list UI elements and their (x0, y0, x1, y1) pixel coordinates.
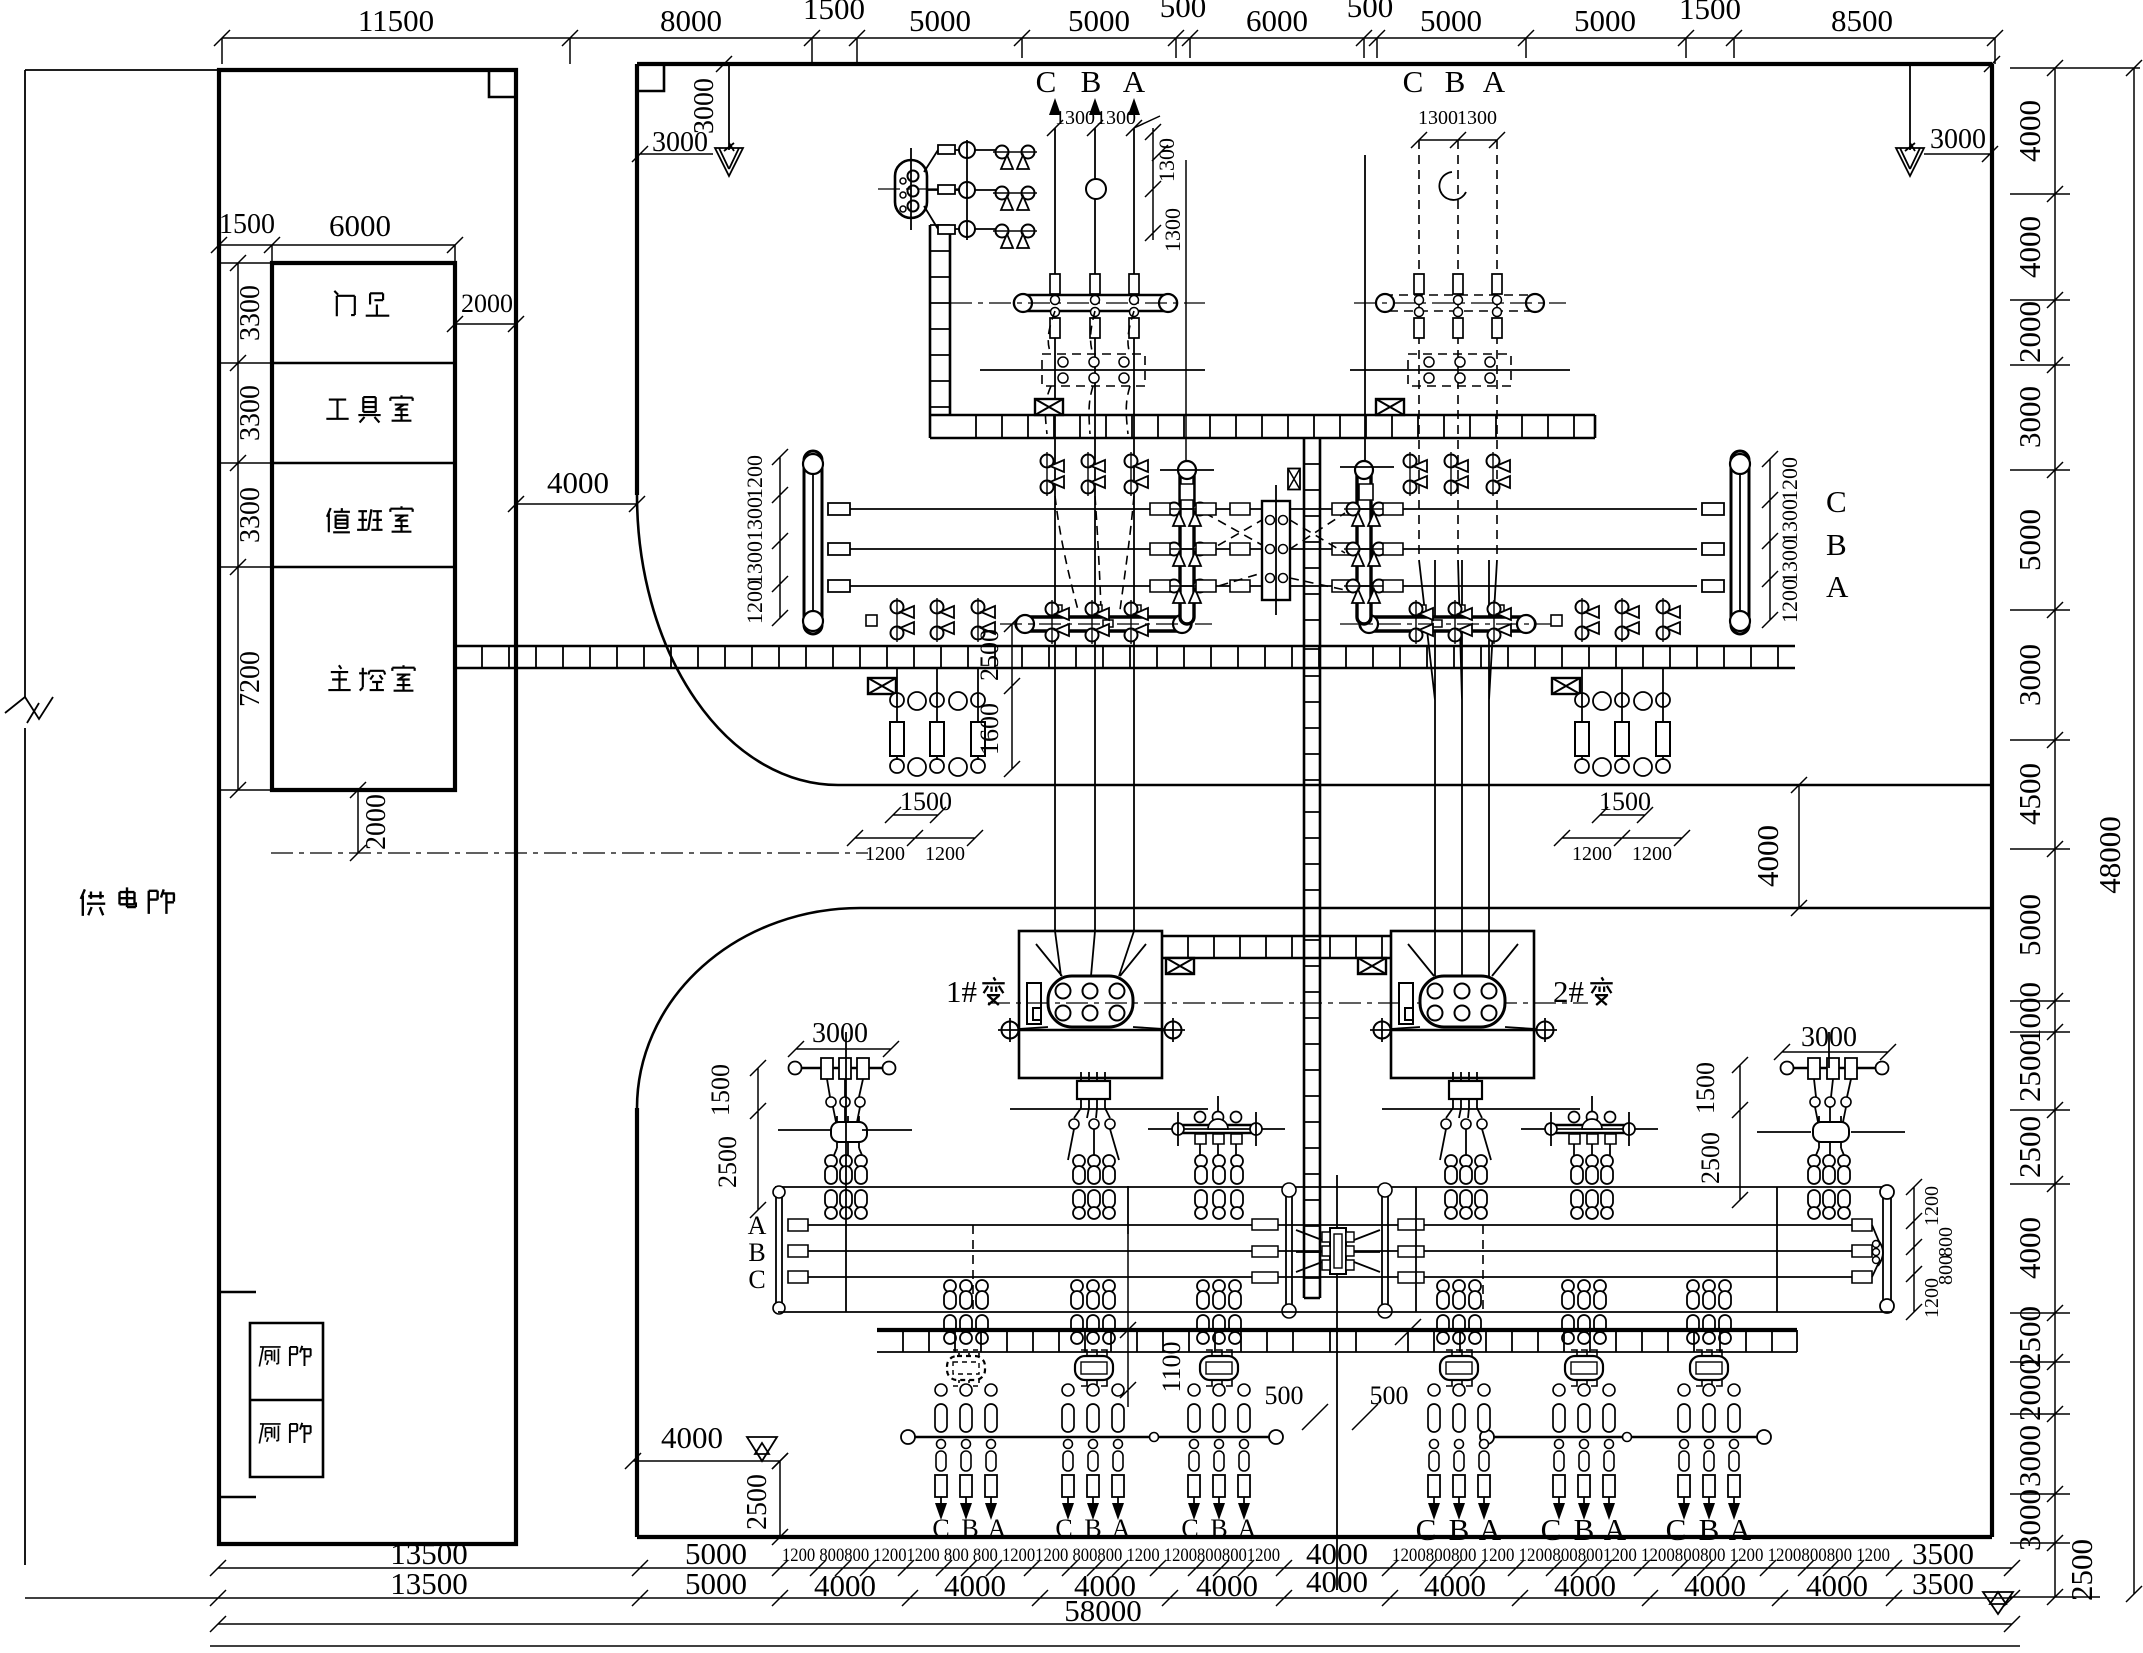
label 供电所 (81, 889, 105, 916)
svg-text:2000: 2000 (2012, 1359, 2047, 1421)
tube bus phase insulators top (1050, 274, 1139, 294)
svg-text:C: C (932, 1514, 949, 1543)
svg-text:1300: 1300 (1777, 499, 1802, 543)
svg-text:2500: 2500 (2012, 1306, 2047, 1368)
feeder drops G5 (1553, 1440, 1565, 1521)
top boundary left segment (25, 69, 219, 71)
svg-text:A: A (1729, 1512, 1752, 1547)
feeder capsule rows above bus (935, 1404, 947, 1432)
3000 vertical dim top-right (1909, 64, 1911, 150)
svg-text:A: A (1479, 1512, 1502, 1547)
benchmark triangle top-left (715, 143, 743, 176)
svg-text:4000: 4000 (661, 1420, 723, 1455)
svg-text:2500: 2500 (1696, 1132, 1725, 1184)
left bay phase wire C (1054, 128, 1056, 931)
feeder drops G2 (1062, 1440, 1074, 1521)
svg-text:1500: 1500 (1679, 0, 1741, 26)
cable trench horizontal band (455, 646, 1795, 668)
transformer bridge band top (1162, 935, 1391, 938)
feeder drops G1 (935, 1440, 947, 1521)
L-bus pads (1048, 605, 1141, 627)
feeder circle triples G4 (1428, 1384, 1490, 1396)
svg-text:48000: 48000 (2092, 816, 2127, 894)
svg-text:4000: 4000 (1196, 1568, 1258, 1603)
svg-text:1200: 1200 (742, 580, 767, 624)
left bay phase wire A (1133, 128, 1135, 931)
svg-text:2000: 2000 (461, 289, 513, 318)
lower insulator clusters G2 (1071, 1280, 1083, 1344)
svg-text:B: B (748, 1238, 765, 1267)
left L-bus vertical tube (1180, 463, 1194, 624)
top dimension chain line (222, 37, 1995, 39)
svg-text:1300: 1300 (1457, 107, 1497, 129)
svg-text:A: A (1483, 64, 1506, 99)
svg-text:B: B (1449, 1512, 1470, 1547)
svg-text:4000: 4000 (1806, 1568, 1868, 1603)
svg-text:B: B (1699, 1512, 1720, 1547)
svg-text:1500: 1500 (1599, 787, 1651, 816)
right chain 1 labels (2012, 100, 2099, 1601)
T1 LV circles (1069, 1119, 1079, 1129)
transformer 1 tank (1048, 976, 1133, 1027)
T1 LV drops (1068, 1129, 1119, 1160)
building corner notch (489, 72, 514, 97)
svg-text:C: C (748, 1265, 765, 1294)
lower disconnect line (778, 1311, 1892, 1313)
10kV right end bracket (1878, 1240, 1883, 1266)
rooms width dim line (219, 245, 455, 263)
lower insulator clusters G4 (1437, 1280, 1449, 1344)
svg-text:4000: 4000 (2012, 100, 2047, 162)
right bay tube bus dashed (1376, 295, 1544, 311)
tube bus phase insulators bottom (1050, 318, 1139, 338)
left bay arrow ticks (1047, 120, 1168, 161)
svg-text:C: C (1826, 484, 1847, 519)
10kV switchgear band bottom (877, 1351, 1797, 1353)
T1 axis centerline (988, 1002, 1588, 1004)
dashed construction vertical (973, 1225, 1483, 1312)
crossed box below band left (868, 678, 896, 694)
lower insulator clusters G3 (1197, 1280, 1209, 1344)
svg-text:1300: 1300 (1160, 208, 1185, 252)
feeder circle triples G6 (1678, 1384, 1740, 1396)
svg-text:500: 500 (1347, 0, 1394, 24)
right L-bus vertical tube (1357, 463, 1371, 624)
dim 1200 1200 right (1554, 830, 1690, 846)
svg-text:1300: 1300 (742, 497, 767, 541)
svg-text:1200: 1200 (1777, 579, 1802, 623)
svg-text:C: C (1055, 1514, 1072, 1543)
svg-text:1300: 1300 (1055, 107, 1095, 129)
T2 LV horizontal line (1382, 1108, 1580, 1110)
svg-text:1500: 1500 (900, 787, 952, 816)
svg-text:1200: 1200 (865, 843, 905, 865)
left PT centerline (980, 369, 1205, 371)
upper L-wall vertical band (930, 225, 950, 438)
centre axis line (1336, 1175, 1338, 1590)
road corner arc lower (637, 908, 860, 1108)
central trench rungs (1304, 464, 1320, 1278)
bottom chain row2 ticks (210, 1590, 2020, 1606)
10kV section coupler box (1330, 1228, 1346, 1274)
svg-text:2000: 2000 (361, 794, 392, 850)
svg-text:A: A (1238, 1514, 1257, 1543)
svg-text:1500: 1500 (706, 1064, 735, 1116)
wall stub upper (219, 1291, 256, 1294)
svg-text:1300: 1300 (1777, 539, 1802, 583)
bridge crossed box left (1166, 958, 1194, 974)
feeder drops G6 (1678, 1440, 1690, 1521)
svg-text:3300: 3300 (235, 385, 266, 441)
left arrester dashes down (832, 1148, 864, 1160)
T1 brace lines (1018, 944, 1164, 1029)
3000 horizontal dim line top-right (1924, 146, 1998, 162)
right riser tube (1883, 1190, 1891, 1308)
right L-bus centerline (1340, 623, 1556, 625)
right arrester assembly (1813, 1122, 1849, 1142)
T2 LV circles (1441, 1119, 1451, 1129)
T2 bushings (1428, 984, 1497, 1021)
dim 2500 vertical (1004, 616, 1020, 777)
top chain extension stubs (222, 38, 1995, 64)
coupler dashed crossover left (1205, 513, 1262, 590)
svg-text:A: A (1604, 1512, 1627, 1547)
svg-text:5000: 5000 (2012, 509, 2047, 571)
svg-text:5000: 5000 (909, 3, 971, 38)
svg-text:3000: 3000 (2012, 644, 2047, 706)
feeder takeoff assembly G3 (1148, 1096, 1285, 1160)
right portal top bar (1782, 1067, 1888, 1070)
trench band rungs (482, 646, 1778, 668)
coupler pads right (1332, 503, 1352, 592)
svg-text:500: 500 (1265, 1381, 1304, 1410)
right chain 2 total line (2133, 68, 2135, 1594)
right L-bus pads (1412, 605, 1504, 627)
svg-text:3300: 3300 (235, 487, 266, 543)
svg-text:C: C (1036, 64, 1057, 99)
curl mark on B phase (1439, 172, 1466, 200)
svg-text:A: A (1123, 64, 1146, 99)
bridge crossed box right (1358, 958, 1386, 974)
incoming disconnectors row3 (993, 225, 1037, 249)
breaker unit F6 (1690, 1350, 1728, 1386)
crossed box on wall left bay (1035, 399, 1063, 415)
toilet labels 厕所 (259, 1347, 280, 1367)
oval centerline (878, 188, 965, 190)
right fuse group circles top (1575, 692, 1670, 710)
room label 门卫 (334, 291, 354, 316)
main bus right pads (1702, 503, 1724, 592)
breaker unit F1 dashed (947, 1350, 985, 1386)
right bus support capsule (1731, 451, 1749, 634)
svg-text:B: B (1826, 527, 1847, 562)
svg-text:58000: 58000 (1064, 1593, 1142, 1628)
svg-text:4000: 4000 (1424, 1568, 1486, 1603)
incoming oval PT (895, 160, 927, 218)
35kV insulators feeder mid-left (1195, 1155, 1207, 1219)
10kV bus wire A (795, 1224, 1862, 1226)
disconnectors on right L-bus (1410, 600, 1434, 644)
right bay phase wire C dashed (1418, 140, 1420, 560)
svg-text:3000: 3000 (2012, 1489, 2047, 1551)
svg-text:1500: 1500 (219, 209, 275, 240)
phase arrows up (1049, 98, 1140, 115)
svg-text:A: A (988, 1514, 1007, 1543)
coupler arrow pads left (1252, 1219, 1278, 1283)
left capsule dim chain (772, 449, 788, 626)
35kV insulators left portal (825, 1155, 837, 1219)
room block outline (272, 263, 455, 790)
right bay phase wires solid lower (1419, 560, 1497, 976)
right tube circles (1415, 296, 1502, 317)
svg-text:3000: 3000 (689, 78, 720, 134)
right chain 2 ticks (2126, 60, 2142, 1602)
property line break symbol (5, 697, 53, 723)
35kV insulators right portal (1808, 1155, 1820, 1219)
right PT centerline (1350, 369, 1570, 371)
3000 vertical dim top-left (728, 64, 730, 150)
transformer 1 bay box (1019, 931, 1162, 1078)
svg-text:1#: 1# (946, 974, 977, 1009)
incoming pad stack column (938, 145, 955, 234)
svg-text:4000: 4000 (547, 465, 609, 500)
left bay disconnectors below wall (1041, 452, 1065, 496)
left PT circles (1058, 357, 1129, 383)
left bay dashed drops to wall (1045, 311, 1134, 434)
main bus wire 2 (848, 548, 1697, 550)
svg-text:4000: 4000 (1554, 1568, 1616, 1603)
bottom chain row3 total line (218, 1623, 2012, 1625)
T2 rail (1373, 1029, 1554, 1032)
svg-text:6000: 6000 (1246, 3, 1308, 38)
yard left wall lower segment (635, 1108, 639, 1537)
svg-text:B: B (1084, 1514, 1101, 1543)
upper wall horizontal band (930, 415, 1595, 438)
bottom chain row1 ticks (210, 1560, 2020, 1576)
svg-text:800: 800 (1935, 1227, 1957, 1257)
svg-text:3000: 3000 (812, 1018, 868, 1049)
right capsule dim chain (1762, 451, 1778, 628)
yard bottom wall (637, 1535, 1992, 1539)
svg-text:1100: 1100 (1157, 1341, 1186, 1392)
10kV bus left pads (788, 1219, 808, 1283)
top-right slash tick on wall (1984, 56, 2000, 72)
svg-text:8000: 8000 (660, 3, 722, 38)
bus pads right of right riser (1383, 503, 1403, 592)
T1 bushings (1056, 984, 1125, 1021)
breaker row pad (866, 615, 877, 626)
left bus support capsule (804, 451, 822, 634)
right tube centerline (1354, 302, 1566, 304)
svg-text:4500: 4500 (2012, 763, 2047, 825)
breaker unit F3 (1200, 1350, 1238, 1386)
svg-text:1500: 1500 (803, 0, 865, 26)
transformer 2 tank (1420, 976, 1505, 1027)
svg-text:8500: 8500 (1831, 3, 1893, 38)
feed diagonals from oval (924, 150, 1004, 229)
bottom-right benchmark triangle (1983, 1592, 2013, 1614)
left arrester assembly (831, 1122, 867, 1142)
left portal top bar (790, 1067, 894, 1070)
svg-text:1200: 1200 (742, 455, 767, 499)
right fuse group circles bottom (1575, 758, 1670, 776)
svg-text:1200: 1200 (1921, 1186, 1943, 1226)
svg-text:C: C (1403, 64, 1424, 99)
T2 brace lines (1390, 944, 1536, 1029)
riser tube pads (1180, 484, 1373, 500)
10kV bus right end pads (1852, 1219, 1872, 1283)
main bus wire 1 (848, 508, 1697, 510)
feeder circle triples G3 (1188, 1384, 1250, 1396)
left fuse group circles bottom (890, 758, 985, 776)
incoming disconnectors row1 (993, 146, 1037, 170)
left L-bus horizontal tube (1016, 617, 1191, 631)
left fuse group fuses (890, 722, 985, 756)
T1 LV fan lines (1074, 1108, 1110, 1118)
circle device on B phase (1086, 179, 1106, 199)
top chain tick marks (214, 30, 2003, 46)
road centerline from gate (271, 852, 868, 854)
road edge upper (838, 784, 1992, 787)
10kV right end V-wires (1872, 1225, 1880, 1277)
T1 LV horizontal line (1010, 1108, 1208, 1110)
disconnect wedges on right riser tube (1344, 503, 1388, 527)
svg-text:B: B (1574, 1512, 1595, 1547)
35kV line (778, 1186, 1887, 1188)
bus pads flanking left riser (1150, 503, 1216, 592)
svg-text:1200: 1200 (1921, 1278, 1943, 1318)
room label 主控室 (328, 665, 350, 690)
svg-text:2500: 2500 (713, 1136, 742, 1188)
svg-text:4000: 4000 (2012, 1217, 2047, 1279)
svg-text:A: A (748, 1211, 767, 1240)
site bench mark top-left: slash tick (716, 56, 732, 72)
yard top wall (637, 62, 1992, 66)
sheet bottom line (210, 1645, 2020, 1647)
left arrester centreline stubs (778, 1129, 912, 1131)
T2 LV terminal block (1449, 1081, 1482, 1099)
svg-text:5000: 5000 (2012, 894, 2047, 956)
lower insulator clusters G5 (1562, 1280, 1574, 1344)
svg-text:500: 500 (1160, 0, 1207, 24)
main bus left pads (828, 503, 850, 592)
coupler dashed crossover right (1290, 513, 1345, 590)
svg-text:1200 800800 12001200 800 800 1: 1200 800800 12001200 800 800 12001200 80… (782, 1546, 1280, 1566)
right coupler disconnect bar (1382, 1185, 1388, 1315)
yard left wall upper segment (635, 64, 639, 495)
breaker unit F2 (1075, 1350, 1113, 1386)
svg-text:4000: 4000 (1750, 825, 1785, 887)
svg-text:2500: 2500 (2012, 1040, 2047, 1102)
benchmark triangle top-right (1896, 143, 1924, 176)
coupler arrow pads right (1398, 1219, 1424, 1283)
bridge rungs (1188, 936, 1382, 958)
svg-text:B: B (1210, 1514, 1227, 1543)
road width dim 4000 (1791, 777, 1807, 916)
svg-text:2500: 2500 (2012, 1116, 2047, 1178)
svg-text:C: C (1541, 1512, 1562, 1547)
svg-text:3000: 3000 (2012, 386, 2047, 448)
left property line (24, 70, 26, 1565)
svg-text:3000: 3000 (1930, 124, 1986, 155)
10kV right end dim labels (1906, 1179, 1922, 1320)
upper L-wall vertical rungs (930, 225, 950, 407)
dim 1200 1200 left (847, 830, 983, 846)
svg-text:4000: 4000 (814, 1568, 876, 1603)
right chain 1 extension stubs (2010, 68, 2140, 1597)
breaker row right of trench (1576, 598, 1600, 642)
35kV insulators mid-right (1571, 1155, 1583, 1219)
T2 LV fan lines (1446, 1108, 1482, 1118)
svg-text:11500: 11500 (358, 3, 434, 38)
right fuse stems (1582, 668, 1663, 760)
band rungs (903, 1330, 1772, 1352)
right chain 1 ticks (2047, 60, 2063, 1605)
coupler side pins (1322, 1232, 1354, 1270)
svg-text:1300: 1300 (1096, 107, 1136, 129)
right bay phase wire B dashed (1457, 140, 1459, 560)
35kV insulators under T1 (1073, 1155, 1085, 1219)
wall stub lower (219, 1496, 256, 1499)
T1 LV terminal block (1077, 1081, 1110, 1099)
T1 rail (1001, 1029, 1182, 1032)
svg-text:3000: 3000 (2012, 1425, 2047, 1487)
riser top circle centrelines (1160, 467, 1394, 470)
dim 2000 below building (350, 782, 366, 861)
svg-text:3300: 3300 (235, 285, 266, 341)
feeder circle triples G5 (1553, 1384, 1615, 1396)
svg-text:1200: 1200 (925, 843, 965, 865)
central cable trench vertical band (1304, 438, 1320, 1298)
svg-text:1200800800 1200 12008008001200: 1200800800 1200 12008008001200 120080080… (1392, 1546, 1890, 1566)
feeder circle triples G2 (1062, 1384, 1124, 1396)
rooms height ticks (230, 255, 246, 798)
svg-text:1300: 1300 (742, 541, 767, 585)
left riser pole (776, 1186, 782, 1312)
transformer bridge band bottom (1162, 957, 1391, 960)
10kV switchgear band top (877, 1328, 1797, 1332)
feeder drops G3 (1188, 1440, 1200, 1521)
right bay phase wire A dashed (1496, 140, 1498, 560)
feeder takeoff assembly G5 (1521, 1096, 1658, 1160)
left portal drops (827, 1079, 863, 1097)
vertical dim 1300/1300 left bay (1134, 116, 1186, 460)
bottom row3 ticks (210, 1616, 2020, 1632)
svg-text:7200: 7200 (235, 651, 266, 707)
disconnect wedges on left riser tube (1165, 503, 1209, 527)
breaker unit F4 (1440, 1350, 1478, 1386)
svg-text:4000: 4000 (1684, 1568, 1746, 1603)
right L-bus horizontal tube (1360, 617, 1535, 631)
transformer 2 bay box (1391, 931, 1534, 1078)
feeder bus left (904, 1436, 1282, 1439)
main bus wire 3 (848, 585, 1697, 587)
construction verticals lower area (846, 1032, 1829, 1312)
band break slash (1395, 1319, 1421, 1345)
left fuse stems (897, 668, 978, 760)
svg-text:A: A (1112, 1514, 1131, 1543)
right arrester dashes down (1814, 1148, 1846, 1160)
L-bus centerline (1000, 623, 1212, 625)
dim 2500 bottom-left (772, 1453, 788, 1545)
svg-text:2500: 2500 (742, 1474, 773, 1530)
svg-text:5000: 5000 (1420, 3, 1482, 38)
toilet block outline (250, 1323, 323, 1477)
incoming disconnectors row2 (993, 187, 1037, 211)
3000 horizontal dim line top-left (632, 146, 713, 162)
svg-text:5000: 5000 (685, 1566, 747, 1601)
room divider walls (272, 363, 455, 567)
